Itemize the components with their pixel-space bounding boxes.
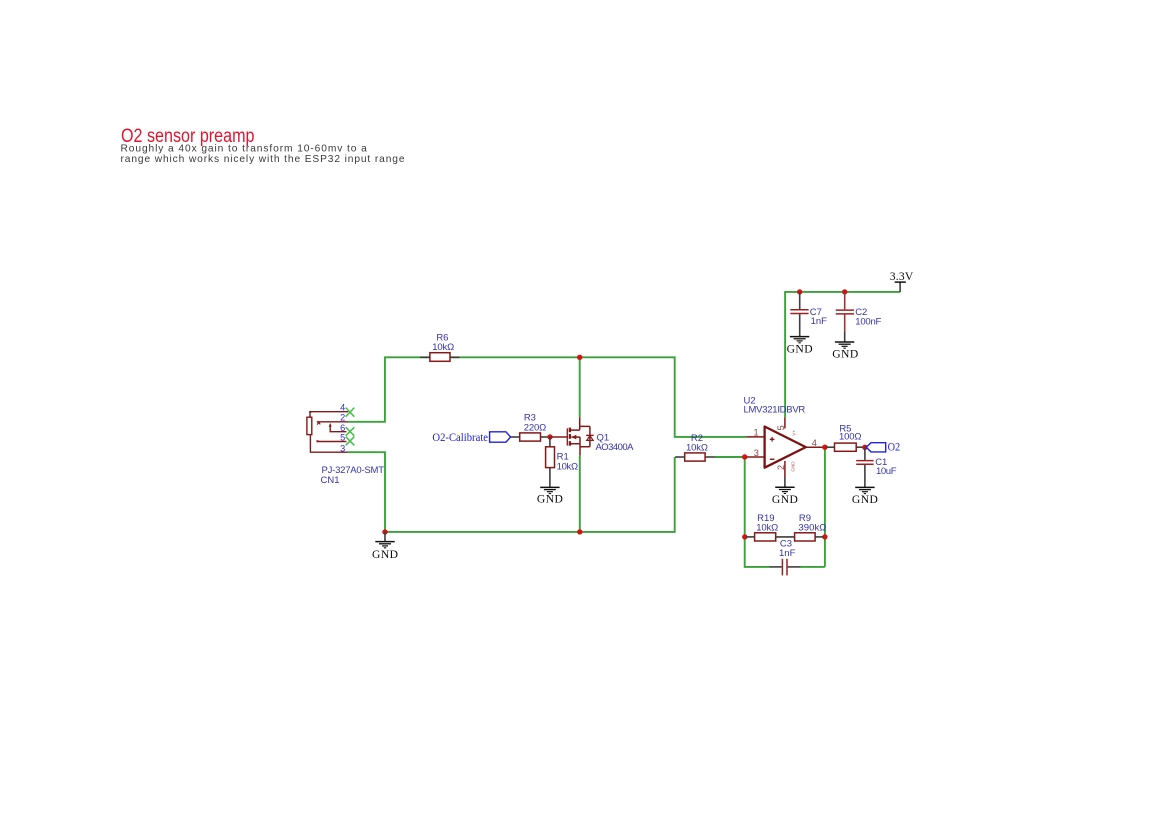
svg-text:V+: V+: [791, 430, 796, 436]
svg-text:AO3400A: AO3400A: [596, 442, 635, 453]
power rail junction C7: [797, 289, 802, 294]
U2 plus input mark: [770, 437, 775, 442]
Q1 body diode bar: [586, 434, 593, 436]
svg-text:10kΩ: 10kΩ: [756, 522, 778, 533]
resistor R5: [835, 423, 862, 451]
CN1 sleeve rectangle: [307, 417, 312, 434]
ground symbol GND under U2: [775, 487, 794, 493]
wire 3.3V power rail down to op-amp pin5: [785, 292, 900, 417]
svg-text:1: 1: [753, 428, 758, 438]
node junction R19 left: [742, 534, 747, 539]
CN1 pin 2 lead: [317, 421, 348, 423]
CN1 pin 4 tick: [309, 411, 312, 414]
capacitor C7: [790, 307, 827, 327]
node junction R9 right: [822, 534, 827, 539]
wire stub C2 to GND: [844, 332, 846, 342]
capacitor C1: [856, 457, 896, 477]
svg-text:GND: GND: [772, 493, 798, 506]
svg-text:range which works nicely with: range which works nicely with the ESP32 …: [121, 154, 405, 165]
svg-text:GND: GND: [832, 348, 858, 361]
svg-text:10kΩ: 10kΩ: [557, 462, 579, 473]
node junction gate of Q1: [547, 434, 552, 439]
CN1 pin 3 lead: [310, 435, 348, 453]
Q1 gate lead: [551, 436, 567, 438]
CN1 pin 5 lead: [317, 441, 346, 443]
no-connect X pin 5: [346, 437, 355, 446]
Q1 source path: [571, 437, 590, 455]
CN1 pin 4 lead: [310, 412, 348, 418]
svg-text:6: 6: [340, 423, 345, 433]
resistor R3: [520, 412, 547, 441]
resistor R6: [430, 333, 454, 362]
node junction bottom-left GND: [382, 529, 387, 534]
ground symbol GND under R1: [540, 487, 559, 493]
wire stub C3 right: [788, 566, 801, 568]
svg-text:3: 3: [754, 448, 759, 458]
wire stub R19-R9 middle: [775, 536, 795, 538]
U2 triangle body: [765, 427, 806, 468]
node junction O2 output: [862, 445, 867, 450]
wire stub R19 left: [746, 536, 755, 538]
node junction bottom rail / Q1 source: [577, 529, 582, 534]
svg-text:1nF: 1nF: [779, 548, 796, 559]
power rail junction C2: [842, 289, 847, 294]
svg-text:100nF: 100nF: [855, 316, 881, 327]
Q1 body connection arrow line: [572, 436, 581, 438]
svg-text:4: 4: [812, 438, 817, 448]
wire net VCC top rail from CN1 pin2 up and right to op-amp pin1: [348, 357, 747, 437]
node junction op-amp pin3: [742, 454, 747, 459]
wire stub R2 left: [675, 456, 685, 458]
CN1 pin 6 arrow head: [329, 423, 332, 427]
no-connect X pin 6: [346, 427, 355, 436]
wire stub C7 top: [799, 293, 801, 310]
wire stub R2 right: [705, 456, 715, 458]
ground symbol GND under C7: [790, 337, 809, 343]
svg-text:GND: GND: [537, 492, 563, 505]
power symbol 3.3V: [890, 270, 914, 292]
U2 pin3 lead: [746, 456, 764, 458]
wire stub C2 bottom: [844, 315, 846, 332]
capacitor C2: [836, 307, 882, 327]
svg-text:O2-Calibrate: O2-Calibrate: [432, 431, 488, 444]
wire stub C2 top: [844, 292, 846, 309]
wire stub C3 left: [770, 566, 782, 568]
ground symbol GND under C2: [835, 342, 854, 348]
resistor R19: [755, 513, 779, 541]
svg-text:10uF: 10uF: [876, 466, 897, 477]
wire stub U2 pin2 to GND: [784, 477, 786, 487]
wire stub C1 top: [864, 447, 866, 460]
node junction output / R5 left: [822, 445, 827, 450]
svg-text:O2: O2: [888, 441, 901, 454]
svg-text:GND: GND: [787, 343, 813, 356]
wire stub R5 right: [856, 446, 865, 448]
Q1 gate bar: [566, 428, 568, 445]
svg-text:1nF: 1nF: [811, 316, 828, 327]
wire stub R6 right: [450, 356, 460, 358]
Q1 body diode triangle: [587, 436, 594, 441]
op-amp U2 LMV321IDBVR: [744, 395, 825, 477]
svg-text:3.3V: 3.3V: [890, 270, 914, 283]
title block text: [121, 126, 405, 165]
resistor R1: [546, 447, 579, 473]
CN1 pin 6 lead with switch arm: [330, 426, 346, 431]
Q1 arrow head: [571, 435, 576, 440]
svg-text:CN1: CN1: [321, 475, 340, 486]
Q1 body diode vertical: [589, 426, 591, 446]
no-connect X pin 4: [346, 408, 355, 417]
svg-text:390kΩ: 390kΩ: [798, 522, 826, 533]
U2 pin2 lead: [784, 461, 786, 477]
U2 pin1 lead: [746, 436, 764, 438]
svg-text:2: 2: [340, 413, 345, 423]
resistor R2: [685, 433, 708, 461]
net label O2-Calibrate: [432, 431, 510, 444]
wire stub C1 bottom: [864, 465, 866, 487]
svg-text:GND: GND: [372, 548, 398, 561]
svg-text:10kΩ: 10kΩ: [686, 442, 708, 453]
U2 pin4 lead: [806, 446, 825, 448]
wire inverting node down to feedback bottom: [745, 457, 770, 567]
connector CN1 PJ-327A0-SMT: [307, 412, 348, 453]
wire stub R3 right: [540, 436, 550, 438]
svg-text:2: 2: [776, 465, 786, 470]
wire stub R6 left: [420, 356, 430, 358]
U2 pin5 lead: [784, 417, 786, 428]
wire stub R9 right: [815, 536, 824, 538]
wire Q1 source down to bottom rail: [579, 455, 581, 532]
node junction top rail / Q1 drain: [577, 355, 582, 360]
U2 minus input mark: [770, 458, 775, 460]
svg-text:4: 4: [340, 403, 345, 413]
svg-text:10kΩ: 10kΩ: [432, 342, 454, 353]
transistor Q1 AO3400A: [551, 417, 594, 455]
svg-text:100Ω: 100Ω: [839, 432, 862, 443]
Q1 channel segments: [569, 428, 571, 433]
wire stub R3 left: [511, 436, 521, 438]
wire stub R1 top: [549, 437, 551, 448]
svg-text:GND: GND: [791, 461, 796, 472]
CN1 pin 2 switch tick: [317, 422, 320, 424]
wire stub bottom-left GND: [384, 532, 386, 542]
wire feedback right leg up to output junction: [800, 447, 825, 567]
CN1 pin 5 tick: [316, 440, 319, 443]
svg-text:5: 5: [776, 425, 786, 430]
wire stub R5 left: [826, 446, 835, 448]
wire R2 to op-amp pin3: [714, 456, 746, 458]
resistor R9: [795, 513, 827, 541]
svg-text:GND: GND: [852, 493, 878, 506]
svg-text:5: 5: [340, 433, 345, 443]
wire Q1 drain drop from top rail: [579, 357, 581, 417]
net label O2: [866, 441, 900, 454]
Q1 drain path: [571, 417, 590, 430]
wire GND bottom rail from CN1 pin3 to R2: [348, 452, 675, 532]
svg-text:220Ω: 220Ω: [524, 423, 547, 434]
capacitor C3: [779, 539, 796, 576]
wire stub R1 bottom to GND: [549, 467, 551, 487]
svg-text:LMV321IDBVR: LMV321IDBVR: [744, 405, 806, 416]
ground symbol GND under C1: [855, 487, 874, 493]
wire stub C7 bottom: [799, 314, 801, 336]
ground symbol GND bottom-left: [375, 542, 394, 548]
svg-text:3: 3: [340, 444, 345, 454]
